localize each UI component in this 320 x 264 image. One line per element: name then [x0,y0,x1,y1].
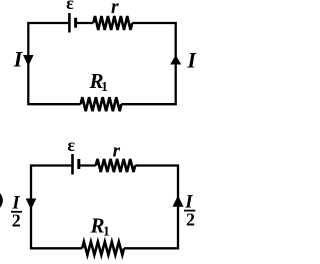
svg-text:2: 2 [186,210,195,230]
svg-text:2: 2 [12,211,21,231]
svg-text:1: 1 [101,79,108,94]
svg-text:ε: ε [66,0,74,13]
svg-text:1: 1 [103,223,110,238]
svg-text:r: r [113,140,121,161]
svg-text:I: I [13,46,24,71]
svg-text:I: I [186,47,197,72]
svg-text:r: r [111,0,119,18]
svg-text:ε: ε [67,135,75,155]
